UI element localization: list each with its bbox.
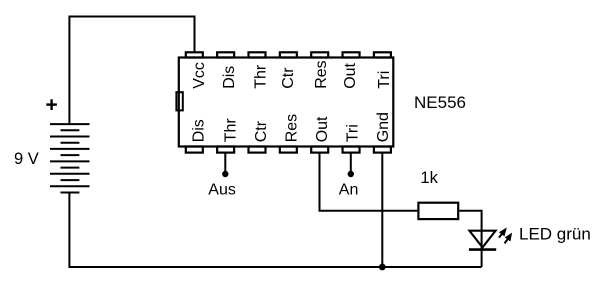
top pin 9 <box>343 52 360 57</box>
svg-text:Dis: Dis <box>191 119 208 142</box>
svg-text:Res: Res <box>313 60 330 88</box>
IC U1 NE556 body <box>179 58 393 147</box>
An test point dot <box>348 171 354 177</box>
wire battery minus to bottom rail <box>69 193 481 268</box>
bottom pin 6 <box>343 147 360 153</box>
wire Thr stub to Aus test point <box>224 152 226 173</box>
junction dot on rail <box>379 264 386 271</box>
wire Tri stub to An test point <box>350 152 352 173</box>
top pin 8 <box>374 52 391 57</box>
svg-text:Thr: Thr <box>252 64 269 89</box>
svg-text:An: An <box>339 182 359 199</box>
svg-text:1k: 1k <box>420 169 438 187</box>
wire from battery plus to Vcc (top rail) <box>69 17 194 125</box>
LED D1 triangle <box>469 231 495 248</box>
svg-text:Ctr: Ctr <box>253 120 270 142</box>
bottom pin 4 <box>280 147 297 153</box>
svg-text:Thr: Thr <box>223 118 240 143</box>
Aus test point dot <box>222 171 228 177</box>
LED cathode bar <box>469 248 496 251</box>
svg-text:Out: Out <box>342 62 359 88</box>
svg-text:Out: Out <box>314 116 331 142</box>
resistor R1 1k <box>418 203 458 219</box>
wire resistor to LED and down to rail <box>459 211 481 267</box>
top pin 14 <box>186 52 203 57</box>
svg-text:Ctr: Ctr <box>280 67 297 89</box>
svg-text:NE556: NE556 <box>414 93 466 112</box>
LED emission arrow 2 <box>505 235 511 244</box>
bottom pin 2 <box>217 147 234 153</box>
bottom pin 1 <box>186 147 203 153</box>
svg-text:Aus: Aus <box>208 182 236 199</box>
bottom pin 7 <box>374 147 391 153</box>
svg-text:Tri: Tri <box>376 71 393 89</box>
svg-text:Vcc: Vcc <box>191 62 208 89</box>
svg-text:LED grün: LED grün <box>519 224 591 243</box>
bottom pin 3 <box>249 147 266 153</box>
pin-1 notch marker <box>176 92 182 110</box>
top pin 10 <box>311 52 328 57</box>
svg-text:Dis: Dis <box>221 66 238 89</box>
svg-text:Res: Res <box>284 114 301 142</box>
battery B1 9V <box>50 124 90 192</box>
svg-text:Gnd: Gnd <box>375 112 392 142</box>
top pin 13 <box>217 52 234 57</box>
wire Gnd pin to bottom rail <box>381 152 383 267</box>
top pin 12 <box>249 52 266 57</box>
svg-text:9 V: 9 V <box>14 150 39 168</box>
LED emission arrow 1 <box>499 230 505 238</box>
svg-text:Tri: Tri <box>345 124 362 142</box>
bottom pin 5 <box>311 147 328 153</box>
top pin 11 <box>280 52 297 57</box>
wire Out pin to resistor <box>320 152 418 211</box>
plus polarity mark <box>46 99 57 110</box>
